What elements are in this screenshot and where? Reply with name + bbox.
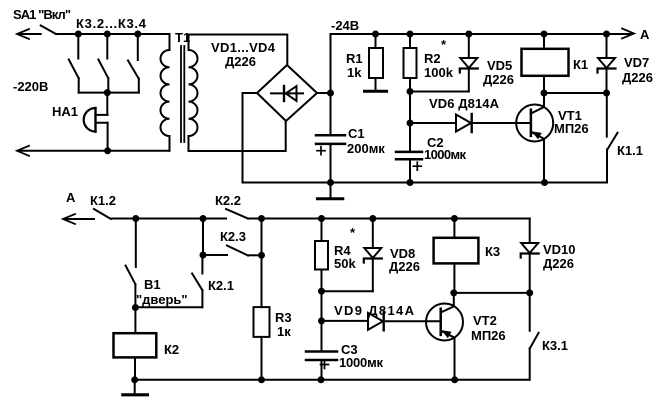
svg-text:К2.2: К2.2 <box>215 193 241 208</box>
svg-text:*: * <box>350 225 356 240</box>
svg-text:К3.1: К3.1 <box>542 338 568 353</box>
svg-text:R1: R1 <box>346 51 363 66</box>
svg-text:НА1: НА1 <box>52 104 78 119</box>
svg-text:К1.2: К1.2 <box>90 193 116 208</box>
svg-text:1k: 1k <box>347 65 362 80</box>
svg-text:В1: В1 <box>144 277 161 292</box>
svg-text:К3.2...К3.4: К3.2...К3.4 <box>76 16 147 31</box>
svg-text:1к: 1к <box>277 324 291 339</box>
svg-text:-220В: -220В <box>13 79 48 94</box>
svg-text:МП26: МП26 <box>471 328 506 343</box>
svg-text:R2: R2 <box>424 51 441 66</box>
svg-text:SA1 "Вкл": SA1 "Вкл" <box>13 7 71 22</box>
svg-text:50k: 50k <box>334 256 356 271</box>
svg-text:VD7: VD7 <box>624 55 649 70</box>
svg-text:*: * <box>441 37 447 52</box>
svg-text:VT2: VT2 <box>473 313 497 328</box>
svg-text:VD10: VD10 <box>543 242 576 257</box>
svg-text:К2.3: К2.3 <box>220 229 246 244</box>
svg-text:Д226: Д226 <box>622 70 653 85</box>
svg-text:Д226: Д226 <box>225 54 256 69</box>
svg-text:А: А <box>640 27 650 42</box>
svg-text:К2: К2 <box>164 342 179 357</box>
svg-text:1000мк: 1000мк <box>424 147 466 162</box>
svg-text:К1.1: К1.1 <box>617 143 643 158</box>
svg-text:"дверь": "дверь" <box>136 292 188 307</box>
svg-text:Д226: Д226 <box>389 259 420 274</box>
svg-text:100k: 100k <box>424 65 454 80</box>
svg-text:R3: R3 <box>275 310 292 325</box>
svg-text:А: А <box>66 190 76 205</box>
svg-text:200мк: 200мк <box>347 141 385 156</box>
svg-text:К1: К1 <box>573 57 588 72</box>
svg-text:МП26: МП26 <box>554 121 589 136</box>
svg-text:VD5: VD5 <box>487 58 512 73</box>
svg-text:Д226: Д226 <box>483 72 514 87</box>
svg-text:К2.1: К2.1 <box>208 278 234 293</box>
svg-text:-24В: -24В <box>331 18 359 33</box>
svg-text:C1: C1 <box>348 126 365 141</box>
svg-text:VD6 Д814А: VD6 Д814А <box>429 96 500 111</box>
svg-text:1000мк: 1000мк <box>339 355 383 370</box>
svg-text:VD9 Д814А: VD9 Д814А <box>334 303 415 318</box>
svg-text:К3: К3 <box>485 244 500 259</box>
svg-text:Т1: Т1 <box>175 30 190 45</box>
svg-text:Д226: Д226 <box>543 256 574 271</box>
svg-text:VD1...VD4: VD1...VD4 <box>211 40 276 55</box>
